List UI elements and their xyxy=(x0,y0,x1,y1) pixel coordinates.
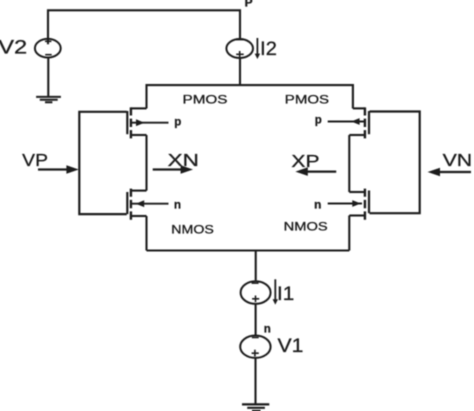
svg-text:p: p xyxy=(315,115,322,127)
wire V2 top to P rail xyxy=(48,10,240,44)
svg-text:V1: V1 xyxy=(278,336,304,357)
nmos M2 left: drain stub xyxy=(131,215,147,217)
ground G1 (bottom) xyxy=(242,404,269,411)
svg-text:VP: VP xyxy=(22,150,48,170)
nmos M2 left: source stub xyxy=(131,190,147,192)
nmos M2 left: channel segments xyxy=(130,189,132,220)
nmos M4 right: drain stub xyxy=(349,214,365,216)
pmos M3 right: channel segments xyxy=(364,107,366,138)
nmos M4 right: gate bar xyxy=(368,191,370,214)
XN output arrow xyxy=(153,168,182,170)
node XP vertical wire xyxy=(348,135,350,192)
svg-text:I1: I1 xyxy=(277,284,294,305)
nmos M4 right: source stub xyxy=(349,191,365,193)
svg-text:VN: VN xyxy=(443,150,473,170)
wire I2 to top rail xyxy=(239,58,241,85)
svg-text:n: n xyxy=(174,199,181,211)
wire V2 to ground xyxy=(47,57,49,96)
pmos M1 left: drain stub xyxy=(131,134,147,136)
svg-text:PMOS: PMOS xyxy=(285,93,329,107)
svg-text:XN: XN xyxy=(168,150,199,170)
top rail wire xyxy=(147,85,353,108)
pmos M1 left: channel segments xyxy=(130,107,132,138)
svg-text:NMOS: NMOS xyxy=(171,223,214,237)
svg-text:P: P xyxy=(245,0,253,10)
pmos M3 right: source stub xyxy=(353,107,365,109)
wire V1 to ground xyxy=(254,358,256,404)
pmos M3 right: gate bar xyxy=(368,111,370,134)
nmos M2 left: body stub with arrow and n label xyxy=(132,203,169,205)
wire nmos drain to bottom rail left xyxy=(145,216,147,251)
pmos M3 right: drain stub xyxy=(349,134,365,136)
svg-text:n: n xyxy=(264,324,271,336)
current source I2 xyxy=(226,39,253,58)
wire bottom rail to I1 xyxy=(255,251,257,281)
voltage source V2 xyxy=(35,39,61,58)
input bracket VP (gate connection) xyxy=(79,112,127,214)
VN input arrow xyxy=(439,171,471,173)
XP output arrow xyxy=(307,171,336,173)
svg-text:V2: V2 xyxy=(0,38,27,59)
pmos M3 right: body stub with arrow and p label xyxy=(328,121,365,123)
pmos M1 left: source stub xyxy=(131,107,147,109)
current source I1 xyxy=(241,281,271,304)
svg-text:XP: XP xyxy=(291,151,319,171)
pmos M1 left: gate bar xyxy=(126,111,128,134)
nmos M4 right: body stub with arrow and n label xyxy=(328,203,362,205)
svg-text:NMOS: NMOS xyxy=(284,219,328,233)
input bracket VN (gate connection) xyxy=(370,112,420,214)
node XN vertical wire xyxy=(145,135,147,191)
svg-text:PMOS: PMOS xyxy=(183,92,228,106)
nmos M2 left: gate bar xyxy=(126,192,128,214)
svg-text:I2: I2 xyxy=(260,39,277,60)
wire I1 to V1 xyxy=(255,304,257,336)
VP input arrow xyxy=(38,168,68,170)
voltage source V1 xyxy=(240,336,270,358)
svg-text:p: p xyxy=(174,116,181,128)
pmos M1 left: body stub with arrow and p label xyxy=(132,122,169,124)
wire nmos drain to bottom rail right xyxy=(348,216,350,251)
nmos M4 right: channel segments xyxy=(364,189,366,220)
bottom rail wire xyxy=(147,249,350,251)
svg-text:n: n xyxy=(314,200,321,212)
ground G2 (under V2) xyxy=(36,97,61,102)
